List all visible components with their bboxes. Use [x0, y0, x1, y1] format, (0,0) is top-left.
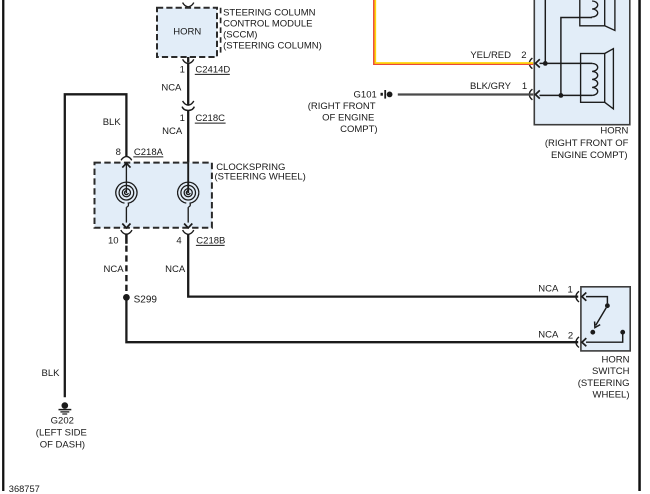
svg-text:(SCCM): (SCCM)	[223, 30, 257, 41]
svg-text:2: 2	[568, 330, 573, 341]
svg-text:C218A: C218A	[134, 147, 164, 158]
svg-text:(STEERING WHEEL): (STEERING WHEEL)	[215, 172, 306, 183]
svg-text:NCA: NCA	[538, 329, 559, 340]
clockspring pin 10 arrow	[122, 224, 130, 228]
svg-text:10: 10	[108, 236, 119, 247]
svg-text:2: 2	[521, 50, 526, 61]
wire: SCCM pin stub	[187, 57, 189, 63]
svg-text:8: 8	[116, 147, 121, 158]
connector C218B pin 10	[108, 230, 132, 246]
svg-text:NCA: NCA	[162, 126, 183, 137]
svg-text:STEERING COLUMN: STEERING COLUMN	[223, 8, 316, 19]
connector: horn switch pin 2	[538, 329, 586, 347]
label: G101 location	[308, 101, 378, 135]
svg-text:HORN: HORN	[600, 126, 628, 137]
wire BLK: jog from G202 riser to C218A	[65, 94, 127, 397]
page border left	[2, 0, 4, 491]
svg-text:368757: 368757	[9, 484, 40, 494]
connector above SCCM module	[183, 3, 194, 10]
svg-text:(LEFT SIDE: (LEFT SIDE	[36, 427, 87, 438]
ground G202	[59, 402, 72, 414]
svg-text:S299: S299	[134, 294, 158, 305]
svg-text:OF DASH): OF DASH)	[40, 440, 85, 451]
horn assembly pin 2 entry	[521, 50, 539, 68]
svg-text:YEL/RED: YEL/RED	[470, 50, 511, 61]
horn internal wiring pin 1	[540, 18, 593, 98]
clockspring right coil L2	[178, 163, 199, 222]
svg-text:G202: G202	[51, 415, 74, 426]
connector C218A	[116, 147, 164, 160]
svg-text:BLK: BLK	[103, 117, 122, 128]
svg-text:C218C: C218C	[195, 113, 225, 124]
connector C218B pin 4	[176, 230, 225, 246]
svg-text:CONTROL MODULE: CONTROL MODULE	[223, 19, 312, 30]
svg-text:NCA: NCA	[165, 264, 186, 275]
wire: S299 to horn switch pin 2	[126, 297, 578, 342]
connector C2414D	[180, 59, 231, 75]
svg-text:(STEERING: (STEERING	[578, 378, 630, 389]
connector: horn switch pin 1	[538, 283, 586, 302]
horn assembly box	[534, 0, 630, 125]
svg-text:ENGINE COMPT): ENGINE COMPT)	[551, 150, 628, 161]
module U1: SCCM horn output box	[157, 8, 217, 57]
SCCM module boundary edge	[220, 8, 222, 54]
svg-text:SWITCH: SWITCH	[592, 366, 630, 377]
svg-text:1: 1	[180, 65, 185, 76]
ground G101	[354, 89, 393, 100]
svg-text:1: 1	[522, 81, 527, 92]
svg-text:COMPT): COMPT)	[340, 124, 377, 135]
svg-text:BLK/GRY: BLK/GRY	[470, 81, 512, 92]
horn H2 (bottom)	[581, 49, 614, 109]
connector C218C	[180, 101, 226, 124]
svg-text:C2414D: C2414D	[195, 65, 230, 76]
svg-text:1: 1	[568, 284, 573, 295]
svg-text:1: 1	[180, 113, 185, 124]
wire BLK/GRY: G101 to horn pin 1	[398, 81, 533, 95]
svg-text:(RIGHT FRONT: (RIGHT FRONT	[308, 101, 376, 112]
page border right	[638, 0, 641, 491]
svg-text:NCA: NCA	[538, 283, 559, 294]
horn switch SW1 box	[581, 287, 630, 351]
label: SCCM module name	[223, 8, 322, 52]
clockspring left coil L1	[116, 163, 137, 223]
label: clockspring	[215, 162, 306, 182]
svg-text:WHEEL): WHEEL)	[593, 390, 630, 401]
clockspring pin 8 arrow	[122, 163, 130, 167]
wire NCA: C2414D to C218C	[161, 64, 188, 105]
svg-text:(STEERING COLUMN): (STEERING COLUMN)	[223, 41, 322, 52]
wire NCA dashed: C218B pin10 to S299	[104, 246, 127, 294]
wire YEL/RED: to horn pin 2	[374, 0, 533, 64]
horn internal wiring pin 2	[540, 0, 593, 66]
clockspring module box	[95, 163, 212, 228]
svg-text:4: 4	[176, 236, 181, 247]
clockspring pin 4 arrow	[184, 224, 192, 228]
label: horn switch	[578, 354, 630, 400]
horn switch internal wiring	[586, 297, 625, 343]
horn H1 (top, cut off)	[580, 0, 615, 31]
label: G202 location	[36, 415, 87, 450]
wire NCA: C218B pin 4 to horn switch pin 1	[165, 234, 578, 296]
svg-text:NCA: NCA	[161, 83, 182, 94]
svg-text:OF ENGINE: OF ENGINE	[322, 113, 374, 124]
svg-text:HORN: HORN	[173, 26, 201, 37]
wire NCA: C218C to clockspring	[162, 111, 188, 164]
svg-text:G101: G101	[354, 89, 377, 100]
splice S299	[123, 294, 157, 305]
svg-text:BLK: BLK	[42, 368, 61, 379]
label: horn assembly	[545, 126, 629, 162]
svg-text:(RIGHT FRONT OF: (RIGHT FRONT OF	[545, 138, 629, 149]
svg-text:HORN: HORN	[602, 354, 630, 365]
svg-text:C218B: C218B	[196, 236, 225, 247]
horn assembly pin 1 entry	[522, 81, 540, 100]
svg-text:NCA: NCA	[104, 264, 125, 275]
